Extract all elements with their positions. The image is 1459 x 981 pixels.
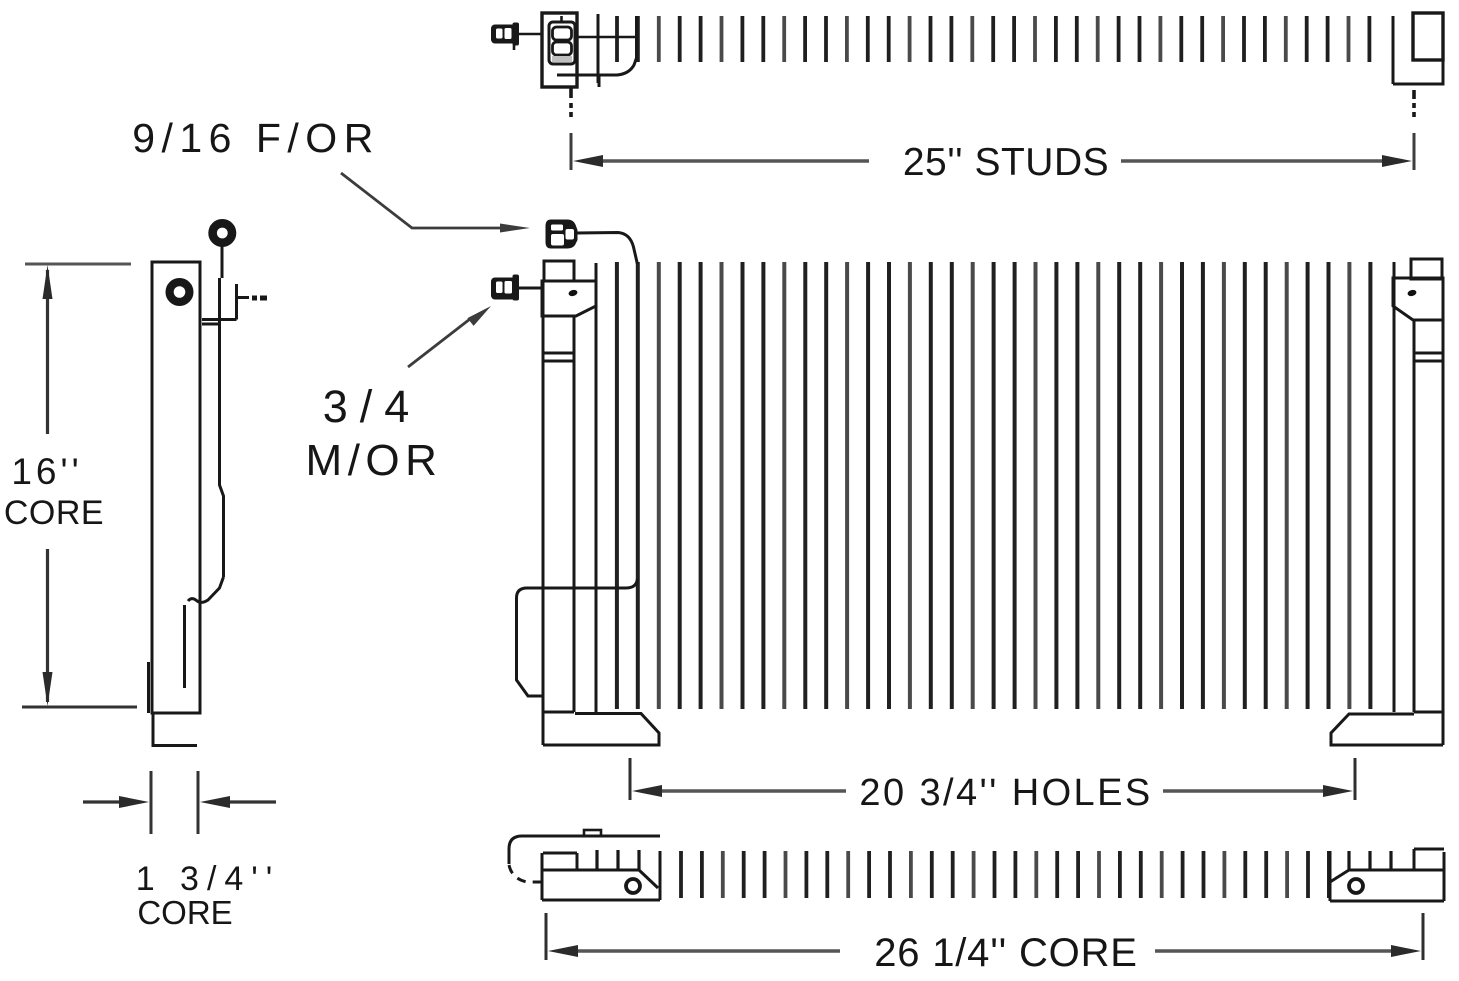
- dimension line 25in studs left: [573, 155, 869, 167]
- dimension line 26 1/4 core left: [548, 945, 840, 957]
- side view top fitting ring: [213, 223, 232, 242]
- bottom view left plate ticks: [597, 850, 639, 870]
- svg-text:16'': 16'': [11, 451, 82, 492]
- svg-text:M/OR: M/OR: [306, 436, 443, 485]
- dimension extension line left core: [545, 913, 548, 960]
- bottom view left tube loop dashed: [509, 865, 542, 882]
- side view foot double edge: [147, 662, 150, 713]
- svg-text:25'' STUDS: 25'' STUDS: [903, 141, 1109, 184]
- dimension extension left 134: [150, 771, 153, 834]
- svg-text:9/16 F/OR: 9/16 F/OR: [132, 115, 380, 161]
- dimension text 1 3/4'': [136, 860, 281, 898]
- front view left column bottom: [543, 711, 574, 714]
- side view tube jog: [188, 577, 224, 602]
- dimension extension line left hole: [629, 758, 632, 800]
- front view right column bands: [1414, 353, 1443, 361]
- bottom view left plate hole: [626, 879, 640, 893]
- top view right bracket plate: [1413, 13, 1443, 60]
- top view right stud dashed line: [1412, 90, 1416, 117]
- side view fitting stem: [221, 246, 224, 278]
- top view left stud dashed line: [569, 88, 573, 117]
- front view left fitting stem: [519, 287, 542, 290]
- front view left header weld dot: [568, 289, 578, 297]
- front view left header block: [542, 281, 596, 316]
- bottom view right plate hole: [1349, 879, 1363, 893]
- front view top fitting 9/16: [546, 220, 578, 249]
- dimension extension line right hole: [1354, 758, 1357, 800]
- dimension line 20 3/4 holes left: [632, 785, 846, 797]
- leader line 9/16: [341, 173, 530, 233]
- bottom view left foot plate: [542, 851, 660, 900]
- side view stud bracket: [202, 284, 237, 324]
- bottom view core fins: [681, 851, 1329, 898]
- dimension text 20 3/4'' HOLES: [859, 772, 1152, 814]
- top view fitting hex detail: [552, 16, 572, 62]
- svg-text:26 1/4'' CORE: 26 1/4'' CORE: [874, 931, 1138, 975]
- front view right foot: [1331, 714, 1443, 745]
- dimension extension line right core: [1422, 913, 1425, 960]
- dimension line 25in studs right: [1121, 155, 1412, 167]
- front view right header weld dot: [1407, 289, 1417, 297]
- side view core rectangle: [152, 262, 200, 713]
- top view left header block: [542, 13, 577, 87]
- front view left column bands: [544, 353, 574, 361]
- top view core left edge: [597, 14, 600, 83]
- top view header center line: [577, 36, 637, 39]
- side view tube lower: [183, 605, 186, 688]
- front view right column bottom: [1414, 711, 1443, 714]
- top view right bracket outline: [1393, 60, 1443, 84]
- front view core right boundary: [1393, 262, 1396, 712]
- svg-text:CORE: CORE: [137, 894, 232, 931]
- front view core left boundary: [595, 263, 598, 712]
- dimension line 1 3/4 left: [83, 796, 149, 808]
- front view right top tab: [1411, 259, 1442, 279]
- dimension text CORE bottom: [137, 894, 232, 931]
- top view fitting tick: [513, 40, 516, 50]
- front view top tube bend: [576, 233, 637, 265]
- front view right column left edge: [1413, 320, 1416, 712]
- front view left oring fitting: [491, 275, 519, 301]
- front view right header right edge: [1442, 278, 1445, 745]
- top view male o-ring fitting: [491, 23, 519, 46]
- dimension text 16'': [11, 451, 82, 492]
- bottom view right plate ticks: [1349, 851, 1391, 870]
- front view left column right edge: [573, 316, 576, 712]
- side view foot: [153, 713, 197, 746]
- front view right header block: [1393, 278, 1443, 320]
- dimension text CORE left: [4, 494, 104, 532]
- dimension extension top 16: [25, 263, 131, 266]
- label 3/4: [323, 381, 422, 432]
- bottom view left tube top line: [584, 830, 660, 836]
- dimension line 16 core: [43, 265, 53, 706]
- dimension extension right 134: [197, 771, 200, 834]
- label 9/16 F/OR: [132, 115, 380, 161]
- svg-text:CORE: CORE: [4, 494, 104, 532]
- dimension line 26 1/4 core right: [1155, 945, 1421, 957]
- leader arrow 3/4: [408, 306, 491, 367]
- dimension text 26 1/4'' CORE: [874, 931, 1138, 975]
- svg-text:20 3/4'' HOLES: 20 3/4'' HOLES: [859, 772, 1152, 814]
- top view core right edge: [1392, 16, 1395, 84]
- label M/OR: [306, 436, 443, 485]
- front view left foot: [543, 714, 659, 746]
- side view mounting hole ring: [170, 282, 190, 302]
- bottom view left tube loop: [509, 836, 604, 864]
- dimension extension bottom 16: [22, 706, 137, 709]
- bottom view right foot plate: [1330, 849, 1444, 901]
- front view bottom tube loop: [517, 579, 638, 696]
- side view tube down: [220, 278, 224, 577]
- side view stud axis: [237, 296, 267, 301]
- dimension line 20 3/4 holes right: [1163, 785, 1353, 797]
- dimension text 25'' STUDS: [903, 141, 1109, 184]
- front view left top tab: [544, 261, 574, 281]
- dimension extension line left stud: [570, 133, 573, 170]
- svg-text:1 3/4'': 1 3/4'': [136, 860, 281, 898]
- top view core fins: [617, 16, 1369, 62]
- front view core fins: [617, 262, 1371, 709]
- front view left header left edge: [542, 281, 545, 745]
- svg-text:3/4: 3/4: [323, 381, 422, 432]
- top view left bracket outline: [557, 16, 637, 87]
- top view fitting stem line: [518, 33, 542, 36]
- top view left header inner boss: [549, 22, 575, 64]
- dimension line 1 3/4 right: [200, 796, 276, 808]
- dimension extension line right stud: [1413, 133, 1416, 170]
